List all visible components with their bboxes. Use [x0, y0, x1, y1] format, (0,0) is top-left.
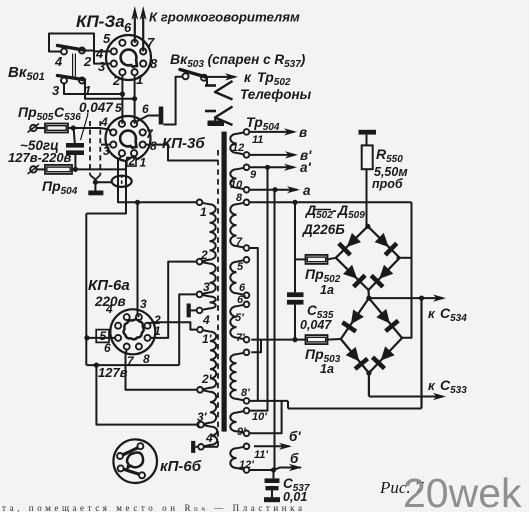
svg-text:3: 3 — [52, 83, 60, 98]
primary winding 3p-4p — [198, 422, 217, 450]
primary winding 1-2 — [197, 200, 216, 265]
svg-text:127в-220в: 127в-220в — [8, 150, 72, 165]
wire 12p — [249, 467, 276, 472]
svg-text:Д226Б: Д226Б — [302, 222, 345, 237]
wire Вк503 to terminal — [164, 77, 183, 125]
socket КП-6а — [110, 309, 155, 354]
label 1а fuse503 — [320, 362, 334, 376]
jack ground — [208, 118, 225, 127]
label 127в — [98, 365, 128, 380]
svg-text:6: 6 — [104, 341, 111, 355]
svg-text:4: 4 — [105, 302, 113, 316]
wire pin2 КП-3а down — [120, 75, 125, 123]
capacitor C536 — [66, 128, 84, 169]
primary tap labels — [197, 205, 217, 445]
svg-text:20wek: 20wek — [403, 470, 522, 512]
pin labels КП-3б — [100, 101, 157, 170]
secondary winding 10p-9p — [230, 408, 249, 436]
wire 5p fuse line — [251, 339, 305, 341]
label С537 — [283, 476, 310, 494]
svg-text:7: 7 — [236, 236, 243, 248]
contact labels Вк501 — [52, 54, 92, 98]
label ~50гц — [20, 138, 59, 153]
wire bridge2 bottom — [366, 370, 371, 396]
primary winding 2p-3p — [197, 387, 216, 427]
svg-text:б: б — [290, 451, 299, 466]
svg-text:в: в — [299, 125, 307, 140]
wire tap2 vertical — [150, 262, 196, 338]
resistor R550 — [362, 145, 373, 169]
svg-text:0,047: 0,047 — [79, 100, 114, 115]
label Вк501 — [8, 64, 45, 83]
svg-text:4: 4 — [202, 313, 210, 327]
transformer shield dashed — [217, 150, 219, 450]
label С536 — [54, 104, 81, 123]
fuse Пр502 feed — [295, 258, 306, 260]
wire bridge1 bottom — [366, 290, 371, 301]
svg-text:12: 12 — [232, 142, 244, 154]
diode bridge 2 — [341, 298, 402, 373]
secondary tap labels — [230, 134, 268, 471]
terminal bar tap4p — [193, 441, 218, 453]
svg-text:КП-6а: КП-6а — [88, 277, 130, 294]
wire pin8 КП-3б — [145, 145, 218, 161]
wire tap7 down — [249, 248, 257, 401]
label Д226Б — [302, 222, 345, 237]
label КП-3а — [76, 12, 125, 31]
wire tap1 horizontal — [135, 200, 197, 205]
label 5,50м — [374, 165, 408, 179]
terminal bar at КП-3б pin6 — [159, 107, 164, 125]
wire fuse to socket pin4 — [68, 128, 111, 132]
wire left main vertical — [85, 214, 87, 366]
svg-text:8: 8 — [236, 192, 243, 204]
switch Вк501 contact 3 — [61, 78, 67, 84]
label Тр504 — [246, 114, 280, 133]
switch Вк501 top blade — [58, 46, 85, 51]
secondary winding 11-12 — [230, 129, 249, 158]
svg-text:4: 4 — [54, 54, 63, 69]
svg-text:5: 5 — [115, 101, 122, 115]
label 0,01 — [283, 490, 307, 504]
fuse Пр505 — [45, 124, 68, 133]
secondary winding 8-7 — [230, 200, 249, 251]
wire pin6 to loudspeaker arrow — [131, 6, 138, 43]
fuse Пр502 — [306, 255, 336, 264]
label С535 — [307, 303, 334, 321]
capacitor С535 — [287, 292, 304, 342]
secondary winding 11p-12p — [230, 444, 249, 473]
fuse Пр504 — [45, 165, 72, 174]
node C536 top — [71, 125, 76, 130]
wire КП-6а pin2 to tap 1' — [148, 322, 198, 329]
svg-text:1: 1 — [154, 324, 161, 338]
svg-text:К громкоговорителям: К громкоговорителям — [149, 10, 300, 25]
wire loop top — [49, 34, 111, 52]
svg-text:1: 1 — [200, 205, 207, 219]
svg-text:11: 11 — [252, 134, 263, 146]
label Пр505 — [18, 104, 54, 123]
wire contact3 down — [64, 84, 122, 95]
boxed pin label 2 — [127, 156, 136, 168]
svg-text:0,047: 0,047 — [300, 318, 332, 332]
arrow а — [249, 183, 311, 198]
grommet oval — [112, 175, 132, 189]
wire R550 to bridge — [366, 169, 368, 226]
wire 8p line — [249, 400, 288, 402]
wire right vertical B — [419, 296, 424, 409]
terminal bar R550 проб — [359, 130, 377, 146]
wire C535 net — [292, 200, 297, 293]
label к Тр502 — [244, 69, 291, 88]
wire branch to tap 3' — [94, 363, 198, 425]
svg-text:5: 5 — [237, 261, 244, 273]
svg-text:8: 8 — [150, 56, 158, 71]
switch Вк501 contact 1 — [79, 78, 85, 84]
svg-text:7': 7' — [236, 332, 245, 344]
node to 5-wire — [84, 335, 89, 340]
svg-text:проб: проб — [372, 177, 404, 191]
wire to pin3 КП-3а — [94, 51, 111, 63]
svg-text:6: 6 — [239, 282, 246, 294]
jack 1 fork — [215, 81, 233, 100]
arrow б' — [254, 429, 301, 450]
wire tap10p to а' — [249, 167, 267, 410]
label 0,047 C535 — [300, 318, 332, 332]
socket КП-6б — [113, 439, 157, 483]
chassis ground bar — [88, 191, 103, 196]
svg-text:Телефоны: Телефоны — [240, 87, 312, 102]
wire tap8 line — [249, 201, 411, 203]
arrow к Тр502 — [207, 73, 239, 80]
label КП-6а — [88, 277, 130, 294]
wire КП-3б pin1 down — [86, 156, 134, 214]
node C536 bottom — [73, 167, 78, 172]
label КП-3б — [162, 135, 205, 152]
wire contact2 to node — [85, 50, 94, 52]
label Рис 7 — [379, 478, 425, 497]
arrow в — [249, 125, 307, 140]
label R550 — [376, 146, 403, 165]
label 0,047 with callout — [79, 100, 114, 140]
svg-text:1: 1 — [140, 156, 147, 170]
label К громкоговорителям — [149, 10, 300, 25]
label Пр503 — [305, 346, 341, 365]
switch Вк503 contacts — [183, 73, 208, 80]
arrow б — [274, 451, 303, 471]
wire pin1 КП-3а down — [132, 75, 137, 123]
input terminal 2 — [28, 165, 46, 174]
watermark 20wek — [403, 470, 522, 512]
pin labels КП-3а — [95, 20, 158, 88]
wire 127в row — [86, 364, 179, 366]
wire bridge1 right stub — [397, 257, 412, 259]
wire pin3 stub — [101, 144, 111, 146]
jumper 5p-7p — [251, 340, 261, 353]
primary winding 1p-2p — [197, 327, 216, 393]
svg-text:6: 6 — [142, 102, 149, 116]
input terminal 1 — [28, 124, 46, 133]
svg-text:5: 5 — [103, 31, 111, 46]
cutoff caption — [2, 503, 302, 512]
wire to bottom rail — [287, 401, 289, 409]
wire to jack1 — [206, 78, 208, 86]
svg-text:127в: 127в — [98, 365, 128, 380]
secondary winding 6p-5p — [230, 302, 249, 343]
svg-text:-: - — [332, 202, 337, 218]
terminal bar tap4 — [189, 304, 197, 318]
svg-text:10: 10 — [230, 179, 243, 191]
svg-text:кП-6б: кП-6б — [160, 458, 202, 475]
label Вк503 спарен с R537 — [170, 51, 306, 70]
label Д502-Д509 — [305, 202, 365, 221]
svg-text:8: 8 — [150, 139, 157, 153]
svg-text:1: 1 — [136, 72, 143, 87]
wire КП-3б pin2 down — [118, 156, 138, 203]
svg-text:3: 3 — [140, 297, 147, 311]
label проб — [372, 177, 404, 191]
svg-text:6: 6 — [124, 20, 132, 35]
wire КП-6а pin7 to tap 2' — [126, 349, 198, 390]
wire б net vertical — [274, 190, 276, 470]
svg-text:6': 6' — [237, 294, 246, 306]
svg-text:2: 2 — [112, 73, 121, 88]
svg-text:2: 2 — [200, 248, 208, 262]
svg-text:а': а' — [300, 160, 312, 175]
svg-text:4': 4' — [205, 431, 217, 445]
svg-text:3': 3' — [197, 410, 208, 424]
switch Вк503 blade — [180, 70, 207, 78]
svg-text:9': 9' — [237, 426, 246, 438]
shield dashed lines — [90, 121, 100, 175]
svg-text:1а: 1а — [320, 283, 334, 297]
svg-text:8: 8 — [143, 352, 150, 366]
svg-text:3: 3 — [98, 59, 106, 74]
label Пр504 — [42, 178, 78, 197]
label 127в-220в — [8, 150, 72, 165]
svg-text:10': 10' — [252, 411, 267, 423]
wire КП-3б pin6 to terminal — [136, 116, 159, 123]
wire right vertical A — [402, 202, 412, 337]
wire pin7 to loudspeaker arrow — [140, 6, 147, 51]
label Телефоны — [240, 87, 312, 102]
fuse Пр503 — [306, 335, 341, 344]
secondary winding 5-6 — [230, 257, 249, 298]
svg-text:9: 9 — [250, 169, 257, 181]
boxed label 5 — [96, 329, 109, 343]
arrow в' — [249, 148, 312, 163]
socket КП-3б — [106, 116, 151, 161]
label 220в — [94, 294, 126, 309]
arrow а' — [249, 160, 311, 175]
switch Вк501 contact 4 — [61, 49, 67, 55]
arrow к С534 — [369, 295, 467, 325]
svg-text:1а: 1а — [320, 362, 334, 376]
arrow к С533 — [369, 377, 467, 400]
jack 2 fork — [215, 107, 233, 126]
switch Вк501 bottom blade — [58, 76, 85, 80]
wire tap3 vertical — [179, 294, 197, 365]
label 1а fuse502 — [320, 283, 334, 297]
transformer core — [222, 132, 227, 432]
bottom rail — [288, 408, 422, 410]
wire 9p to 8p — [249, 401, 281, 433]
svg-text:3: 3 — [203, 280, 210, 294]
svg-text:к: к — [244, 70, 252, 85]
primary winding 2-3 — [197, 259, 216, 297]
jack 2 tip bar — [205, 110, 216, 113]
label КП-6б — [160, 458, 202, 475]
capacitor С537 — [264, 470, 280, 502]
svg-text:11': 11' — [254, 449, 268, 461]
svg-text:2: 2 — [83, 54, 92, 69]
node bridge top — [365, 224, 370, 229]
svg-text:0,01: 0,01 — [283, 490, 307, 504]
wire to КП-6а pin5 — [87, 337, 115, 339]
secondary winding 9-10 — [230, 165, 249, 193]
switch Вк501 contact 2 — [79, 48, 85, 54]
svg-text:КП-За: КП-За — [76, 12, 125, 31]
wire contact1 down — [85, 80, 135, 99]
svg-text:7: 7 — [147, 35, 155, 50]
svg-text:3: 3 — [103, 144, 110, 158]
svg-text:б': б' — [289, 429, 301, 444]
secondary winding 7p-8p — [230, 350, 249, 404]
svg-text:8': 8' — [241, 387, 250, 399]
switch link — [73, 54, 76, 77]
pin labels КП-6а — [104, 297, 161, 368]
svg-text:1': 1' — [202, 332, 213, 346]
wire mains bottom — [72, 168, 126, 170]
wire to КП-6а pin3 — [138, 202, 139, 317]
svg-text:а: а — [303, 183, 311, 198]
shield funnel to ground — [90, 175, 112, 191]
socket КП-3а — [106, 35, 151, 80]
diode bridge 1 — [336, 226, 400, 290]
svg-text:5': 5' — [235, 312, 244, 324]
primary winding 3-4 — [197, 292, 216, 314]
label Пр502 — [305, 266, 341, 285]
svg-text:2': 2' — [201, 372, 213, 386]
jack 1 tip bar — [205, 84, 216, 87]
